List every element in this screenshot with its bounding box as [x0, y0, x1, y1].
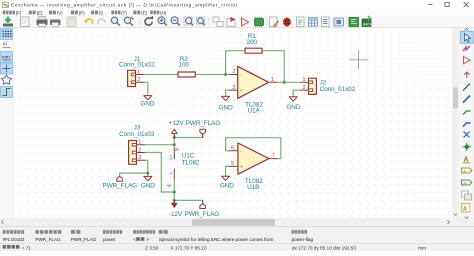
svg-text:BACK: BACK [363, 23, 373, 27]
resistor R1 [245, 33, 262, 53]
junction tool [465, 145, 469, 149]
svg-text:-12V: -12V [169, 211, 183, 218]
redo icon (disabled) [98, 19, 105, 24]
svg-text:1: 1 [271, 77, 274, 83]
svg-text:7: 7 [272, 153, 275, 159]
menu bar [0, 10, 474, 17]
BOM icon [322, 17, 330, 27]
svg-text:in: in [3, 42, 7, 48]
wire +12V rail [173, 135, 175, 149]
wire U1A pin3 to ground [226, 90, 230, 96]
connector J2 [301, 77, 356, 94]
svg-text:6: 6 [231, 146, 234, 152]
svg-text:(V): (V) [57, 10, 63, 15]
svg-text:GND: GND [286, 104, 300, 111]
svg-text:mm: mm [418, 245, 426, 250]
svg-text:-: - [240, 72, 242, 78]
status bar [0, 243, 474, 251]
svg-text:power: power [103, 237, 116, 242]
place wire tool [463, 84, 470, 91]
find replace icon [124, 17, 130, 23]
power +12V [169, 120, 185, 138]
grid toggle (selected) [1, 29, 13, 40]
back import icon [362, 19, 371, 27]
connector J1 [119, 56, 155, 87]
svg-text:V+: V+ [169, 154, 174, 160]
svg-text:power-flag: power-flag [292, 237, 314, 242]
fields table icon [309, 18, 318, 27]
wire entry tool [463, 111, 471, 115]
wire J3 pin1 to +12V rail [144, 144, 174, 146]
power flag PWR_FLAG (top) [186, 120, 221, 138]
svg-text:dx 172.70 dy 85.10 dist 192.53: dx 172.70 dy 85.10 dist 192.53 [292, 245, 357, 250]
ground GND (J3) [141, 176, 155, 189]
wire node A up to feedback [225, 51, 227, 75]
op-amp U1A [230, 66, 277, 114]
zoom out icon [171, 17, 178, 24]
save icon [3, 24, 13, 27]
global label tool [462, 168, 473, 173]
wire U1B feedback loop [226, 138, 281, 159]
separator [266, 18, 268, 27]
svg-text:<: < [133, 237, 136, 242]
wire R2 to node A [195, 74, 230, 76]
separator [139, 18, 141, 27]
ortho wires (selected) [1, 87, 13, 98]
power -12V [169, 200, 183, 217]
wire V- rail down to -12V [173, 179, 175, 203]
svg-text:PWR_FLAG: PWR_FLAG [186, 120, 221, 127]
separator [208, 18, 210, 27]
svg-text:(T): (T) [121, 10, 127, 15]
ground GND (J2) [286, 97, 300, 111]
wire R1 to feedback right [262, 50, 284, 52]
svg-text:(I): (I) [99, 10, 104, 15]
junction J3 pin1 node [173, 143, 176, 146]
crosshair cursor [350, 51, 369, 69]
junction output node [283, 81, 286, 84]
svg-text:Conn_01x03: Conn_01x03 [119, 131, 155, 138]
power flag PWR_FLAG (bottom left) [103, 176, 138, 189]
app icon [3, 2, 9, 8]
svg-text:2: 2 [138, 147, 141, 153]
scrollbars [0, 28, 459, 227]
text tool [462, 204, 471, 213]
vertical scrollbar [452, 28, 459, 218]
separator [346, 18, 348, 27]
svg-text:PWR_FLAG: PWR_FLAG [35, 237, 61, 242]
pcbnew icon [349, 18, 359, 27]
undo icon [86, 19, 93, 24]
cursor shape (selected) [1, 63, 13, 74]
svg-text:mm: mm [2, 55, 10, 60]
find icon [111, 17, 117, 23]
svg-text:V-: V- [169, 170, 174, 175]
zoom in icon [158, 17, 165, 24]
svg-text:8: 8 [175, 148, 181, 151]
wire PWR_FLAG stub lower left [119, 173, 121, 176]
symbol editor icon [242, 18, 249, 26]
ground GND (J1) [140, 96, 154, 108]
svg-text:GND: GND [219, 105, 233, 112]
page settings icon [21, 17, 30, 27]
wire output to J2 pin1 [277, 81, 301, 83]
hidden pins [1, 75, 11, 84]
svg-text:4: 4 [167, 184, 173, 187]
svg-text:GND: GND [141, 183, 155, 190]
junction J3 ground node [146, 172, 149, 175]
ground GND (U1B) [220, 176, 234, 190]
wire J3 pin2 route to V- rail [144, 153, 174, 193]
svg-text:3: 3 [138, 155, 141, 161]
wire -12V PWR_FLAG branch [174, 200, 202, 203]
svg-text:Conn_01x02: Conn_01x02 [119, 62, 155, 69]
canvas [14, 28, 453, 218]
svg-text:5: 5 [231, 161, 234, 167]
svg-text:Eeschema — inverting_amplifier: Eeschema — inverting_amplifier_circuit.s… [11, 2, 238, 8]
svg-text:Z 3.50: Z 3.50 [145, 245, 159, 250]
svg-text:= 71: = 71 [22, 245, 32, 250]
svg-text:3: 3 [232, 85, 235, 91]
highlight net tool [463, 46, 470, 51]
wire J3 pin3 to ground [144, 160, 148, 176]
svg-text:2: 2 [232, 69, 235, 75]
wire U1B pin5 to ground [226, 166, 230, 176]
right toolbar [459, 28, 474, 218]
place symbol tool [464, 57, 471, 64]
wire J1 pin1 to R2 [143, 74, 178, 76]
junction V- J3 pin2 node [173, 191, 176, 194]
top toolbar [0, 16, 474, 27]
svg-text:A: A [463, 207, 467, 213]
place bus tool [463, 96, 470, 103]
netlist icon [297, 17, 305, 27]
junction +12V flag node [173, 136, 176, 139]
zoom selection icon [197, 17, 205, 25]
leave sheet icon [227, 19, 235, 27]
svg-text:U1A: U1A [247, 107, 260, 114]
title bar [0, 0, 474, 10]
svg-text:Conn_01x02: Conn_01x02 [320, 86, 356, 93]
wire +12V to PWR_FLAG branch [174, 134, 202, 137]
connector J3 [119, 125, 155, 165]
paste icon (disabled) [67, 17, 76, 27]
svg-text:(E): (E) [37, 10, 43, 15]
svg-text:2: 2 [137, 77, 140, 83]
wire J1 pin2 to ground [143, 82, 148, 95]
svg-text:X 172.70 Y 85.10: X 172.70 Y 85.10 [170, 245, 206, 250]
hier label tool [462, 180, 473, 185]
svg-text:U1B: U1B [247, 184, 259, 191]
svg-text:>: > [146, 237, 149, 242]
wire PWR_FLAG to ground node [120, 172, 148, 174]
annotate icon [270, 17, 278, 27]
mm units (selected) [1, 52, 13, 63]
svg-text:-: - [240, 149, 242, 155]
resistor R2 [178, 56, 195, 77]
no connect tool [464, 132, 470, 138]
svg-text:PWR_FLAG: PWR_FLAG [185, 211, 220, 218]
op-amp U1B [230, 143, 277, 191]
svg-text:(E): (E) [141, 10, 147, 15]
place power port tool [464, 72, 469, 78]
svg-text:(F): (F) [16, 10, 22, 15]
wire J2 pin2 to ground [293, 90, 301, 97]
wire feedback left to R1 [226, 50, 245, 52]
svg-text:2: 2 [303, 85, 306, 91]
print icon [37, 20, 48, 26]
svg-text:PWR_FLAG: PWR_FLAG [71, 237, 97, 242]
svg-text:Special symbol for telling ERC: Special symbol for telling ERC where pow… [159, 237, 274, 242]
svg-text:GND: GND [140, 101, 154, 108]
svg-text:TL082: TL082 [182, 159, 200, 166]
bus entry tool [463, 123, 471, 127]
svg-text:(H): (H) [160, 10, 167, 15]
svg-text:1: 1 [137, 69, 140, 75]
svg-text:1: 1 [303, 77, 306, 83]
navigate hierarchy icon [213, 17, 219, 22]
library browser icon [255, 19, 264, 26]
svg-text:#FLG0102: #FLG0102 [3, 237, 25, 242]
plot icon [50, 20, 61, 26]
left toolbar [0, 28, 14, 218]
zoom fit icon [184, 17, 192, 25]
junction node A [224, 73, 227, 76]
svg-text:PWR_FLAG: PWR_FLAG [103, 183, 138, 190]
power flag PWR_FLAG (bottom right) [185, 200, 220, 217]
svg-text:100: 100 [178, 62, 189, 69]
hier sheet tool [462, 191, 469, 197]
assign footprints icon [334, 18, 344, 26]
window buttons [428, 2, 469, 7]
ERC ladybug icon [283, 18, 291, 27]
junction -12V flag node [173, 199, 176, 202]
ground GND (U1A) [219, 96, 233, 111]
refresh icon [145, 18, 152, 25]
svg-text:GND: GND [220, 183, 234, 190]
cursor tool (selected) [460, 31, 473, 43]
horizontal scrollbar [0, 218, 459, 227]
info panel [0, 227, 474, 244]
wire feedback right down to output [283, 51, 285, 83]
svg-text:+12V: +12V [169, 120, 185, 127]
op-amp power unit U1C [167, 148, 200, 187]
svg-text:200: 200 [246, 39, 257, 46]
svg-text:(P): (P) [79, 10, 85, 15]
svg-text:1: 1 [138, 140, 141, 146]
